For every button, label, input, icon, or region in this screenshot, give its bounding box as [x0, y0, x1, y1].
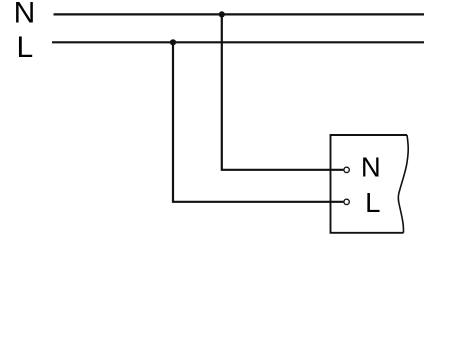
svg-text:N: N	[14, 0, 36, 30]
svg-text:L: L	[365, 187, 380, 218]
svg-text:N: N	[361, 152, 381, 183]
svg-text:L: L	[17, 31, 34, 64]
